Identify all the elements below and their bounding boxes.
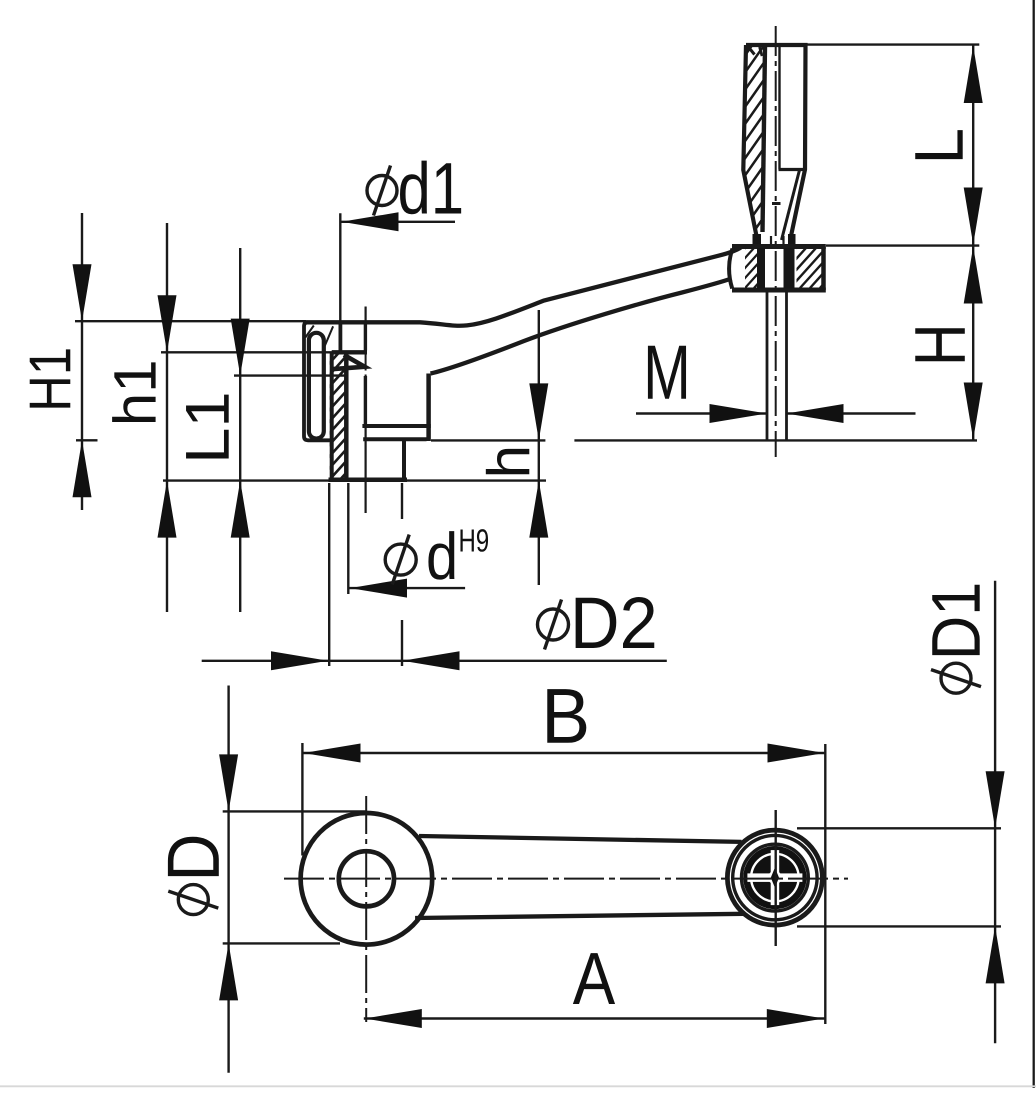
plan phillips center (768, 871, 782, 885)
label L1 (186, 395, 229, 459)
plan handle circle 3 (742, 844, 809, 911)
dimension B arrows (304, 744, 361, 763)
label oD2 (538, 609, 569, 640)
dimension H1 line (81, 213, 83, 510)
hub wall hatching (194, 352, 476, 479)
arm top edge (303, 247, 742, 326)
collar pin bore post right (784, 248, 795, 289)
extension line flange bottom (431, 439, 545, 441)
label oD (168, 837, 219, 915)
dimension oD1 arrows (986, 771, 1005, 828)
collar nose arc (729, 249, 732, 289)
collar top line (732, 244, 826, 249)
label L (915, 130, 962, 159)
dimension oD1 line (994, 581, 996, 1043)
dimension L arrows (964, 46, 983, 103)
dimension L1 arrow top (231, 319, 250, 376)
dimension H arrows (964, 247, 983, 304)
label h1 (112, 362, 155, 422)
plan handle outer circle (727, 830, 822, 925)
dimension H1 arrow bottom (73, 440, 92, 497)
dimension M arrow left (710, 404, 767, 423)
dimension oD extensions (223, 810, 366, 812)
dimension A line (364, 1017, 825, 1019)
page right border line (1033, 0, 1035, 1088)
dimension oD line (227, 686, 229, 1073)
shaft right edge (785, 290, 788, 440)
dimension M line right (787, 412, 916, 414)
dimension oD2 extension left (328, 483, 330, 666)
extension line L1 top (234, 374, 348, 376)
label odH9 (385, 544, 416, 575)
collar bottom line (732, 288, 826, 293)
dimension odH9 arrow (350, 579, 407, 598)
grip pin bottom tick (772, 202, 781, 205)
page bottom faint line (0, 1085, 1036, 1087)
dimension h1 arrow bottom (158, 481, 177, 538)
hub cap inner slot (stadium) (309, 333, 324, 439)
dimension odH9 extension (347, 483, 349, 594)
dimension A arrows (365, 1009, 422, 1028)
grip handle outline (revolving sleeve, side section) (743, 45, 805, 236)
plan horizontal centerline (284, 878, 848, 880)
hub flange line lower (363, 437, 426, 441)
bore right wall lower (364, 376, 367, 427)
plan hub vertical centerline (365, 796, 367, 1022)
dimension H line (972, 246, 974, 441)
dimension oD2 arrow right (403, 651, 460, 670)
hub boss bottom (329, 478, 408, 483)
collar pin bore post left (757, 248, 765, 289)
dimension od1 extension (339, 213, 341, 322)
plan phillips cross (771, 850, 780, 905)
dimension odH9 leader line (349, 587, 465, 589)
plan arm upper edge (419, 836, 742, 842)
dimension od1 arrow (342, 212, 399, 231)
plan handle circle 2 (733, 835, 817, 919)
dimension H1 tick (76, 439, 98, 441)
label B (547, 689, 586, 743)
dimension oD2 arrow left (271, 651, 328, 670)
hub wall left edge (330, 354, 334, 479)
label A (573, 953, 615, 1004)
label M (648, 346, 686, 399)
hub ledge line (332, 350, 367, 354)
dimension h1 arrow top (158, 295, 177, 352)
dimension B line (302, 752, 825, 754)
extension line grip top right (806, 43, 979, 45)
dimension oD2 line (202, 660, 667, 662)
arm bottom edge (431, 279, 732, 374)
hub cap chamfer line 1 (305, 326, 314, 338)
hub cap chamfer line 2 (323, 326, 333, 349)
grip centerline (775, 26, 777, 457)
dimension oD2 extension right (401, 483, 403, 519)
dimension h arrow top (529, 383, 548, 440)
dimension M arrow right (787, 404, 844, 423)
hub centerline upper stub (365, 307, 367, 323)
dimension L line (972, 45, 974, 246)
plan arm lower edge (415, 914, 744, 918)
grip inner step line (779, 168, 806, 171)
collar right edge (821, 247, 826, 291)
label H1 (30, 349, 71, 407)
bore right wall upper (364, 322, 367, 350)
plan screw head disk (743, 846, 806, 909)
extension line H1 top (75, 320, 306, 322)
hub centerline lower (365, 427, 367, 513)
hub centerline mid (365, 353, 367, 378)
neck left wall post (753, 234, 762, 247)
neck right wall post (788, 234, 796, 247)
shaft left edge (766, 290, 769, 440)
dimension L1 line (239, 248, 241, 612)
bore cone wedge (333, 355, 365, 369)
hub cap outline (304, 322, 340, 440)
plan hub bore circle (339, 851, 394, 906)
label oD1 (931, 585, 981, 694)
dimension h1 line (166, 223, 168, 612)
hub wall right edge (344, 352, 349, 478)
dimension B/A extension right (824, 744, 826, 1024)
extension line collar top right (826, 244, 979, 246)
extension line boss bottom (163, 479, 546, 481)
grip pin inner taper (782, 170, 800, 240)
grip sleeve hatching (582, 44, 921, 237)
plan handle vertical centerline (775, 810, 777, 946)
neck inner lines (770, 236, 772, 247)
label od1 (367, 176, 397, 206)
dimension h line (538, 310, 540, 585)
plan screw inner white ring (751, 854, 799, 902)
dimension L1 arrow bottom (231, 481, 250, 538)
dimension oD arrows (219, 754, 238, 811)
label H (915, 328, 965, 361)
dimension od1 line (340, 221, 455, 223)
dimension M line left (636, 412, 767, 414)
collar hatching left (691, 248, 808, 288)
dimension oD1 extensions (797, 827, 1001, 829)
grip top-left chamfer marks (748, 47, 755, 55)
hub flange line upper (362, 424, 430, 428)
dimension H1 arrow top (73, 264, 92, 321)
collar hatching right (740, 248, 876, 288)
grip sleeve section boundary line (763, 46, 766, 232)
extension line h1 top (161, 351, 337, 353)
plan hub outer circle (301, 813, 433, 945)
hub boss right edge (402, 441, 406, 480)
arm left wall at hub flange (426, 374, 431, 442)
dimension B extension left (301, 743, 303, 856)
grip pin right edge (778, 46, 780, 170)
dimension h arrow bottom (529, 481, 548, 538)
label h (486, 449, 529, 474)
